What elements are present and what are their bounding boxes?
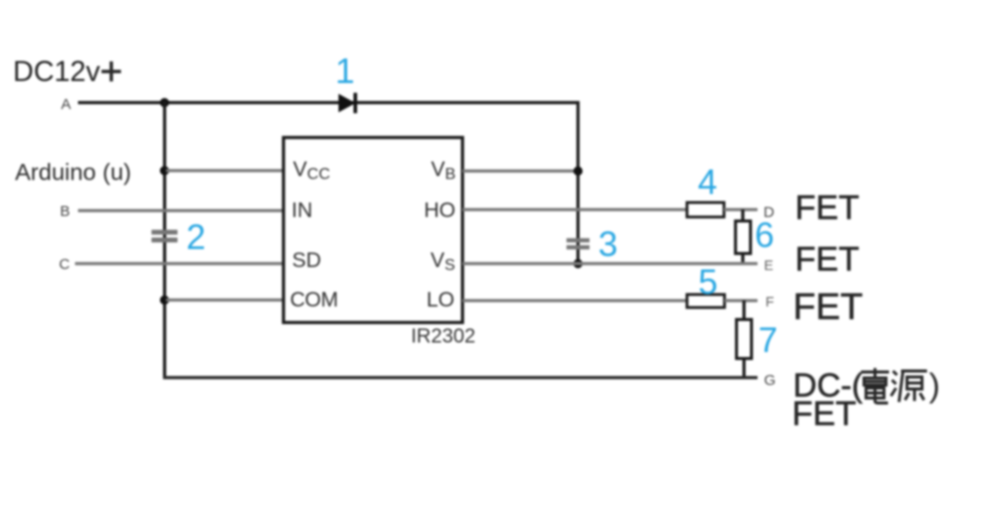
capacitor C3: [567, 238, 590, 249]
label 1 (diode): [335, 52, 354, 91]
resistor R7: [737, 320, 752, 359]
wire COM: [166, 298, 284, 301]
label FET (lower): [793, 286, 863, 327]
svg-text:IN: IN: [292, 199, 313, 222]
svg-text:): ): [929, 367, 940, 404]
label 3 (capacitor): [598, 225, 617, 264]
label FET (top): [795, 189, 859, 227]
label Arduino (u): [15, 159, 131, 185]
label FET (bottom): [792, 395, 856, 433]
junction at COM row on left vertical: [160, 295, 169, 304]
wire left vertical rail: [163, 101, 166, 379]
wire stub D to R6: [741, 210, 744, 222]
wire A top rail: [78, 101, 578, 104]
wire R4 to node D: [724, 208, 758, 211]
svg-text:COM: COM: [290, 289, 338, 312]
svg-text:IR2302: IR2302: [411, 326, 476, 348]
label 4 (resistor): [698, 163, 717, 202]
wire HO to R4: [463, 208, 687, 211]
pin VS label: [431, 249, 456, 274]
svg-text:C: C: [59, 256, 70, 273]
svg-text:1: 1: [335, 52, 354, 91]
pin HO label: [424, 199, 456, 222]
node A: [61, 96, 71, 113]
junction at VB and right vertical: [573, 166, 582, 175]
svg-text:SD: SD: [292, 249, 321, 272]
pin VB label: [431, 158, 456, 183]
wire stub F to R7: [742, 301, 745, 320]
label 2 (capacitor): [186, 218, 205, 257]
svg-text:4: 4: [698, 163, 717, 202]
pin COM label: [290, 289, 338, 312]
wire stub R6 to E: [741, 254, 744, 264]
svg-text:3: 3: [598, 225, 617, 264]
label DC-(power): [793, 367, 940, 404]
op-amp U1 IR2302 body: [284, 138, 463, 323]
wire stub R7 to G rail: [742, 359, 745, 378]
svg-text:G: G: [764, 372, 776, 389]
junction at A rail and left vertical: [160, 98, 169, 107]
wire C to SD: [75, 262, 284, 265]
diode D1: [339, 93, 358, 113]
svg-text:DC12v: DC12v: [13, 56, 101, 88]
wire right vertical (VB bootstrap): [576, 101, 579, 264]
label 6 (resistor): [755, 216, 774, 255]
node E: [764, 257, 773, 273]
svg-text:5: 5: [698, 263, 717, 302]
svg-text:A: A: [61, 96, 71, 113]
svg-text:FET: FET: [792, 395, 856, 433]
junction at VS and right vertical: [573, 259, 582, 268]
node D: [764, 204, 775, 221]
wire VS to node E: [463, 262, 758, 265]
junction at Vcc row on left vertical: [160, 166, 169, 175]
pin SD label: [292, 249, 321, 272]
label IR2302: [411, 326, 476, 348]
svg-text:HO: HO: [424, 199, 456, 222]
resistor R4: [687, 203, 724, 218]
kanji GEN (source) drawn: [891, 371, 927, 402]
resistor R6: [736, 221, 751, 254]
wire R5 to node F: [725, 299, 758, 302]
svg-text:LO: LO: [427, 289, 455, 312]
wire bottom G rail: [163, 376, 758, 379]
svg-text:FET: FET: [793, 286, 863, 327]
svg-text:E: E: [764, 257, 773, 273]
label DC12v+: [13, 56, 121, 88]
capacitor C2: [152, 230, 178, 243]
wire Vcc: [166, 169, 284, 172]
resistor R5: [687, 295, 725, 308]
pin LO label: [427, 289, 455, 312]
node G: [764, 372, 776, 389]
node C: [59, 256, 70, 273]
node F: [766, 294, 775, 310]
svg-text:Arduino (u): Arduino (u): [15, 159, 131, 185]
pin Vcc label: [293, 158, 330, 183]
label 5 (resistor): [698, 263, 717, 302]
label FET (middle): [795, 241, 859, 279]
kanji DEN (electricity) drawn: [861, 368, 889, 403]
pin IN label: [292, 199, 313, 222]
svg-text:FET: FET: [795, 189, 859, 227]
svg-text:FET: FET: [795, 241, 859, 279]
label 7 (resistor): [758, 321, 777, 360]
wire B to IN: [78, 209, 284, 212]
svg-text:B: B: [60, 203, 70, 220]
wire LO to R5: [463, 299, 687, 302]
wire VB: [463, 169, 579, 172]
svg-text:7: 7: [758, 321, 777, 360]
svg-text:6: 6: [755, 216, 774, 255]
node B: [60, 203, 70, 220]
svg-text:2: 2: [186, 218, 205, 257]
svg-text:F: F: [766, 294, 775, 310]
